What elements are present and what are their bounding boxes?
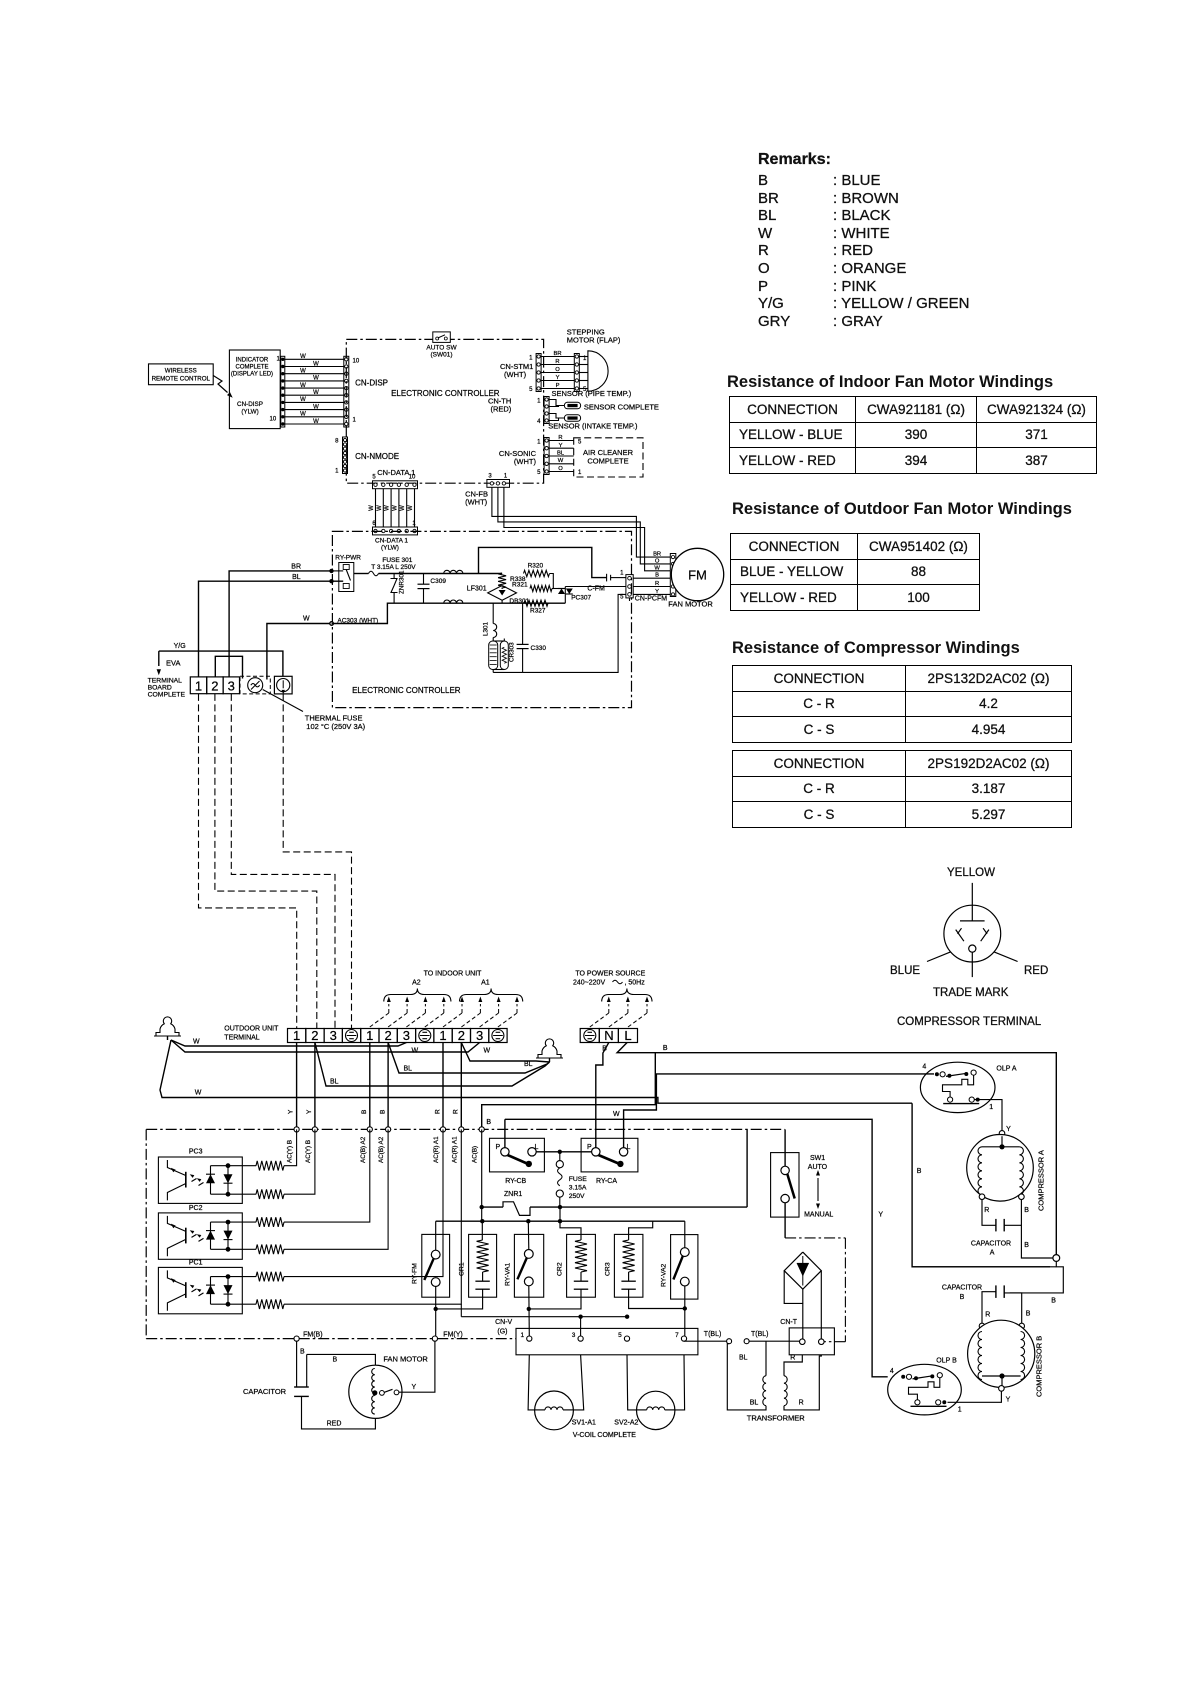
dashed drop from indoor earth (283, 694, 351, 1029)
svg-text:O: O (558, 466, 563, 472)
svg-text:10: 10 (353, 359, 360, 365)
svg-text:1: 1 (504, 474, 508, 480)
svg-text:AC(Y) B: AC(Y) B (287, 1140, 294, 1163)
svg-text:Y: Y (878, 1212, 883, 1219)
svg-text:BL: BL (557, 451, 565, 457)
compressor A (999, 1131, 1005, 1137)
svg-text:CN-DISP: CN-DISP (355, 379, 388, 388)
svg-text:R321: R321 (512, 582, 528, 589)
svg-text:10: 10 (270, 417, 277, 423)
svg-text:2: 2 (384, 1028, 391, 1043)
svg-text:PC3: PC3 (189, 1149, 203, 1156)
svg-text:FM: FM (688, 568, 707, 583)
svg-text:CR3: CR3 (605, 1262, 612, 1276)
svg-text:Y: Y (412, 1384, 417, 1391)
outdoor terminal strip (288, 1029, 306, 1043)
capacitor A (982, 1200, 996, 1226)
svg-text:B: B (1051, 1297, 1056, 1304)
long W wire from mushroom (160, 1040, 656, 1098)
svg-text:T(BL): T(BL) (704, 1331, 722, 1338)
SW1 to CN-T dash-dot (784, 1203, 786, 1238)
svg-text:RY-VA1: RY-VA1 (505, 1262, 512, 1286)
svg-text:BR: BR (653, 552, 661, 558)
svg-text:B: B (333, 1357, 338, 1364)
indoor terminal board 1 2 3 (190, 677, 206, 694)
drop R wire terminal 1c (442, 1043, 444, 1130)
compressor terminal trademark symbol (927, 883, 1018, 977)
BL wire terminal 2a to right mushroom (315, 1043, 550, 1087)
relay RY-VA1 (514, 1234, 543, 1297)
earth screw box (274, 676, 292, 694)
svg-text:L: L (624, 1028, 631, 1043)
svg-text:R: R (790, 1355, 795, 1362)
svg-text:1: 1 (529, 356, 533, 362)
svg-text:B: B (663, 1045, 668, 1052)
choke L301 (492, 603, 494, 623)
connector CN-NMODE (343, 437, 348, 474)
svg-text:1: 1 (958, 1407, 962, 1414)
svg-text:102 °C (250V 3A): 102 °C (250V 3A) (306, 722, 365, 731)
T(BL) wire with inline connectors (684, 1340, 727, 1342)
svg-text:B: B (1026, 1311, 1031, 1318)
signal arrow from remote (213, 376, 227, 393)
wireless remote control box (149, 364, 214, 385)
svg-text:CAPACITOR: CAPACITOR (971, 1240, 1011, 1247)
svg-text:W: W (369, 505, 375, 511)
capacitor B (995, 1285, 997, 1298)
svg-text:PC307: PC307 (571, 595, 591, 602)
rail B (436, 1220, 685, 1222)
svg-text:AC(B): AC(B) (472, 1146, 479, 1163)
svg-text:3: 3 (330, 1028, 337, 1043)
svg-text:INDICATOR: INDICATOR (236, 358, 269, 364)
OLP A heater element (943, 1075, 974, 1097)
svg-text:3: 3 (403, 1028, 410, 1043)
svg-text:AC(Y) B: AC(Y) B (305, 1140, 312, 1163)
svg-text:A2: A2 (412, 980, 421, 987)
thermal fuse dashed box (240, 676, 270, 694)
svg-text:R: R (453, 1109, 460, 1114)
svg-text:5: 5 (529, 387, 533, 393)
svg-text:ZNR301: ZNR301 (399, 570, 406, 594)
svg-text:1: 1 (537, 440, 541, 446)
svg-text:FUSE: FUSE (569, 1176, 588, 1183)
junction circle right side (1053, 1255, 1060, 1262)
outdoor controller dash-dot border bottom (146, 1338, 294, 1340)
V-coil SV1-A1 (528, 1355, 535, 1410)
svg-text:Y: Y (655, 589, 659, 595)
svg-text:5: 5 (618, 1332, 622, 1339)
svg-text:(WHT): (WHT) (465, 498, 488, 507)
svg-text:R: R (984, 1207, 989, 1214)
svg-text:Y: Y (559, 443, 563, 449)
svg-text:L301: L301 (483, 621, 490, 636)
svg-text:RED: RED (327, 1421, 342, 1428)
resistor R327 (524, 600, 548, 606)
svg-text:4: 4 (890, 1368, 894, 1375)
relay coil CR1 (469, 1234, 497, 1297)
svg-text:W: W (313, 376, 319, 382)
svg-text:BR: BR (291, 564, 301, 571)
svg-text:CR303: CR303 (509, 642, 516, 662)
diode bridge (outdoor) (784, 1252, 821, 1289)
electronic controller dash-dot box (indoor) (346, 339, 543, 483)
svg-text:RY-FM: RY-FM (412, 1263, 419, 1284)
connector CN-STM1 (WHT) (536, 354, 541, 392)
svg-text:Y: Y (306, 1109, 313, 1114)
svg-text:2: 2 (311, 1028, 318, 1043)
indicator complete (display LED) box (229, 350, 280, 429)
svg-text:SENSOR (PIPE TEMP.): SENSOR (PIPE TEMP.) (552, 389, 632, 398)
svg-text:1: 1 (293, 1028, 300, 1043)
connector CN-FB (WHT) (487, 480, 510, 488)
junction circles on border (294, 1127, 299, 1132)
svg-text:(YLW): (YLW) (241, 409, 258, 416)
svg-text:1: 1 (537, 399, 541, 405)
svg-text:C309: C309 (430, 578, 446, 585)
long W/B wire to capacitor junction (912, 1103, 1050, 1267)
svg-text:B: B (1024, 1242, 1029, 1249)
svg-text:RY-CA: RY-CA (596, 1178, 617, 1185)
svg-text:REMOTE CONTROL: REMOTE CONTROL (152, 376, 211, 383)
svg-text:ELECTRONIC CONTROLLER: ELECTRONIC CONTROLLER (352, 686, 461, 695)
svg-text:Y: Y (1006, 1126, 1011, 1133)
svg-text:(DISPLAY LED): (DISPLAY LED) (231, 372, 273, 378)
svg-text:B: B (361, 1110, 368, 1114)
wires CN-DATA1 to CN-DATA1(YLW) (375, 489, 377, 527)
svg-text:N: N (604, 1028, 613, 1043)
OLP B (888, 1364, 962, 1415)
svg-text:W: W (313, 390, 319, 396)
svg-text:1: 1 (366, 1028, 373, 1043)
varistor ZNR301 (393, 574, 395, 579)
svg-text:8: 8 (335, 439, 339, 445)
svg-text:CN-V: CN-V (495, 1319, 512, 1326)
svg-text:PC2: PC2 (189, 1205, 203, 1212)
svg-text:, 50Hz: , 50Hz (625, 980, 646, 987)
svg-text:FAN MOTOR: FAN MOTOR (668, 600, 713, 609)
svg-text:2: 2 (458, 1028, 465, 1043)
svg-text:240~220V: 240~220V (573, 980, 605, 987)
extra link PC1 lower to CN-V pin3 (460, 1303, 462, 1305)
wire PC307 to CN-PCFM pin2 (565, 586, 626, 588)
svg-text:TERMINAL: TERMINAL (224, 1035, 259, 1042)
svg-text:TRANSFORMER: TRANSFORMER (747, 1414, 806, 1423)
svg-text:W: W (385, 505, 391, 511)
svg-text:COMPLETE: COMPLETE (148, 692, 186, 699)
fan motor FM (670, 554, 676, 597)
relay RY-CB (490, 1138, 545, 1172)
svg-text:OLP A: OLP A (996, 1066, 1016, 1073)
connector CN-PCFM (626, 575, 633, 598)
svg-text:A: A (990, 1249, 995, 1256)
svg-text:COMPRESSOR A: COMPRESSOR A (1037, 1150, 1046, 1211)
svg-text:ELECTRONIC CONTROLLER: ELECTRONIC CONTROLLER (391, 389, 500, 398)
svg-text:O: O (655, 558, 660, 564)
svg-text:Y: Y (1006, 1397, 1011, 1404)
RY-CB P riser (504, 1119, 506, 1147)
svg-text:FAN MOTOR: FAN MOTOR (383, 1355, 428, 1364)
svg-text:T 3.15A L 250V: T 3.15A L 250V (371, 564, 416, 571)
diode bridge DB301 (488, 586, 517, 601)
svg-text:AC(R) A1: AC(R) A1 (433, 1136, 440, 1163)
svg-text:CN-T: CN-T (780, 1319, 797, 1326)
wire compressor B to OLP B (948, 1391, 1002, 1402)
svg-text:3: 3 (476, 1028, 483, 1043)
svg-text:R: R (655, 581, 659, 587)
svg-text:R: R (434, 1109, 441, 1114)
svg-text:7: 7 (675, 1332, 679, 1339)
BL wire terminal 2c to right mushroom (461, 1043, 549, 1063)
svg-text:Y: Y (288, 1109, 295, 1114)
svg-text:LF301: LF301 (467, 586, 487, 593)
svg-text:W: W (377, 505, 383, 511)
svg-text:CN-NMODE: CN-NMODE (355, 452, 399, 461)
wires CN-PCFM to motor pins (633, 577, 670, 579)
svg-text:BL: BL (524, 1061, 533, 1068)
W wire terminal 3c to mushroom (171, 1040, 480, 1052)
svg-text:RY-PWR: RY-PWR (335, 555, 361, 562)
surge absorber SSB301 (492, 638, 494, 642)
svg-text:A1: A1 (481, 980, 490, 987)
connector CN-SONIC (WHT) (544, 438, 549, 475)
svg-text:3.15A: 3.15A (569, 1185, 587, 1192)
svg-text:R: R (558, 435, 562, 441)
sensor complete thermistors (564, 402, 580, 409)
relay coil CR2 (567, 1234, 596, 1297)
svg-text:W: W (193, 1039, 200, 1046)
earth mushroom left (154, 1017, 181, 1036)
svg-text:TERMINAL: TERMINAL (148, 678, 183, 685)
V-coil SV2-A2 (627, 1355, 637, 1410)
svg-text:W: W (300, 412, 306, 418)
drop Y wire terminal 2a (314, 1043, 316, 1130)
svg-text:(YLW): (YLW) (381, 545, 399, 552)
wire from N terminal to RY-CA P (596, 1043, 609, 1148)
wire BL to terminal 1 (199, 581, 344, 677)
svg-text:10: 10 (409, 475, 416, 481)
svg-text:AUTO: AUTO (808, 1164, 828, 1171)
resistor CR303 (500, 641, 508, 670)
svg-text:T(BL): T(BL) (751, 1331, 769, 1338)
capacitor C330 (522, 603, 524, 644)
svg-text:(RED): (RED) (490, 405, 511, 414)
svg-text:CAPACITOR: CAPACITOR (942, 1285, 982, 1292)
wire B junction link (482, 1053, 656, 1130)
svg-text:CR2: CR2 (557, 1262, 564, 1276)
line filter LF301 (444, 570, 463, 573)
top loop wire to C-FM (479, 547, 607, 577)
svg-text:B: B (960, 1294, 965, 1301)
svg-text:W: W (300, 397, 306, 403)
svg-text:W: W (558, 458, 564, 464)
svg-text:B: B (1024, 1207, 1029, 1214)
svg-text:BOARD: BOARD (148, 685, 172, 692)
switch SW1 (784, 1129, 786, 1166)
svg-text:AUTO SW: AUTO SW (426, 345, 457, 352)
svg-text:1: 1 (578, 470, 582, 476)
svg-text:W: W (484, 1048, 491, 1055)
svg-text:CN-PCFM: CN-PCFM (635, 596, 667, 603)
svg-text:(G): (G) (497, 1329, 507, 1336)
svg-text:P: P (496, 1144, 501, 1151)
connector CN-DATA 1 (YLW) (373, 527, 418, 535)
svg-text:R: R (799, 1400, 804, 1407)
svg-text:SV1-A1: SV1-A1 (572, 1420, 596, 1427)
svg-text:R: R (555, 359, 559, 365)
svg-text:5: 5 (620, 595, 624, 601)
capacitor C309 (423, 574, 425, 585)
svg-text:C330: C330 (531, 645, 547, 652)
svg-text:B: B (917, 1168, 922, 1175)
opto PC307 diodes (564, 587, 566, 604)
svg-text:1: 1 (335, 469, 339, 475)
svg-text:W: W (408, 505, 414, 511)
relay RY-FM (422, 1234, 450, 1297)
svg-text:R320: R320 (528, 563, 544, 570)
transformer (765, 1341, 767, 1376)
svg-text:4: 4 (537, 419, 541, 425)
svg-text:EVA: EVA (166, 659, 180, 668)
svg-text:BL: BL (750, 1400, 759, 1407)
wire W / AC303 to thermal fuse (267, 624, 332, 680)
svg-text:1: 1 (520, 1332, 524, 1339)
svg-text:5: 5 (372, 475, 376, 481)
svg-text:RY-VA2: RY-VA2 (661, 1263, 668, 1287)
svg-text:3: 3 (572, 1332, 576, 1339)
svg-text:BR: BR (553, 351, 561, 357)
svg-text:W: W (300, 383, 306, 389)
wire terminal2 to thermal fuse (215, 656, 242, 678)
FM(Y) junction (432, 1336, 437, 1341)
svg-text:W: W (313, 361, 319, 367)
svg-text:BL: BL (404, 1066, 413, 1073)
air cleaner complete dashed box (574, 438, 643, 477)
svg-text:SV2-A2: SV2-A2 (614, 1420, 638, 1427)
dashed drop from indoor terminal 2 (215, 694, 317, 1029)
svg-text:(WHT): (WHT) (504, 370, 527, 379)
svg-text:250V: 250V (569, 1193, 585, 1200)
svg-text:W: W (412, 1048, 419, 1055)
drop R wire terminal 2c (460, 1043, 462, 1130)
W wire terminal 3b to mushroom (171, 1040, 406, 1046)
svg-text:W: W (300, 369, 306, 375)
thermal fuse label leader (263, 690, 303, 712)
svg-text:(WHT): (WHT) (514, 457, 537, 466)
svg-text:SENSOR COMPLETE: SENSOR COMPLETE (584, 403, 659, 412)
wire B from L terminal (right side feed) (617, 1043, 1056, 1255)
OLP A pin4 wire from RY-CA L (624, 1074, 934, 1148)
svg-text:FM(Y): FM(Y) (443, 1332, 462, 1339)
svg-text:RY-CB: RY-CB (505, 1178, 526, 1185)
drop Y wire terminal 1a (296, 1043, 298, 1130)
svg-text:1: 1 (412, 521, 416, 527)
rail A (482, 1206, 503, 1208)
svg-text:W: W (400, 505, 406, 511)
svg-text:1: 1 (989, 1104, 993, 1111)
svg-text:OLP B: OLP B (936, 1357, 957, 1364)
compressor B (979, 1323, 985, 1329)
svg-text:COMPLETE: COMPLETE (235, 365, 268, 371)
earth mushroom right (536, 1039, 563, 1058)
svg-text:W: W (654, 565, 660, 571)
Y wire to OLP B (505, 1119, 888, 1377)
svg-text:5: 5 (537, 470, 541, 476)
svg-text:AC(B) A2: AC(B) A2 (360, 1136, 367, 1163)
dashed drop from indoor terminal 3 (231, 694, 335, 1029)
bridge wires to CN-T (784, 1271, 803, 1339)
svg-text:COMPRESSOR B: COMPRESSOR B (1035, 1336, 1044, 1397)
svg-text:CAPACITOR: CAPACITOR (243, 1387, 287, 1396)
wire Y/G to earth screw box (159, 651, 283, 676)
svg-text:W: W (303, 616, 310, 623)
drop B wire terminal 2b (387, 1043, 389, 1130)
svg-text:W: W (195, 1090, 202, 1097)
svg-text:WIRELESS: WIRELESS (165, 368, 197, 375)
svg-text:SENSOR (INTAKE TEMP.): SENSOR (INTAKE TEMP.) (548, 422, 638, 431)
wire RY-CB L to RY-CA P with fuse tap (536, 1151, 591, 1153)
svg-text:3: 3 (228, 679, 235, 694)
svg-text:AC(R) A1: AC(R) A1 (451, 1136, 458, 1163)
svg-text:1: 1 (195, 679, 202, 694)
svg-text:AC(B) A2: AC(B) A2 (378, 1136, 385, 1163)
relay coil CR3 (614, 1234, 643, 1297)
svg-text:FM(B): FM(B) (303, 1332, 322, 1339)
svg-text:Y: Y (556, 375, 560, 381)
svg-text:CR1: CR1 (459, 1262, 466, 1276)
svg-text:B: B (655, 573, 659, 579)
svg-text:(SW01): (SW01) (430, 352, 452, 359)
svg-text:W: W (313, 404, 319, 410)
svg-text:B: B (379, 1110, 386, 1114)
svg-text:TO POWER SOURCE: TO POWER SOURCE (575, 971, 645, 978)
svg-text:1: 1 (620, 571, 624, 577)
svg-text:B: B (300, 1349, 305, 1356)
svg-text:B: B (486, 1119, 491, 1126)
dashed drop from indoor terminal 1 (199, 694, 297, 1029)
svg-text:O: O (555, 367, 560, 373)
svg-text:1: 1 (353, 418, 357, 424)
svg-text:FUSE 301: FUSE 301 (382, 557, 412, 564)
svg-text:W: W (313, 419, 319, 425)
svg-text:SW1: SW1 (810, 1155, 825, 1162)
svg-text:COMPLETE: COMPLETE (587, 457, 628, 466)
OLP A (920, 1062, 995, 1112)
OLP B heater element (909, 1378, 940, 1400)
dashed arrows to power source (590, 1013, 609, 1027)
drop B wire terminal 1b (369, 1043, 371, 1130)
resistor R338 (498, 573, 506, 588)
svg-text:1: 1 (439, 1028, 446, 1043)
connector CN-DISP pin columns and wires (281, 358, 284, 361)
AUTO SW (SW01) (433, 332, 451, 343)
svg-text:ZNR1: ZNR1 (504, 1191, 522, 1198)
svg-text:V-COIL COMPLETE: V-COIL COMPLETE (573, 1432, 636, 1439)
wires CN-FB to fan motor FM (492, 487, 670, 557)
svg-text:4: 4 (922, 1063, 926, 1070)
svg-text:P: P (587, 1144, 592, 1151)
svg-text:PC1: PC1 (189, 1260, 203, 1267)
svg-text:TO INDOOR UNIT: TO INDOOR UNIT (424, 971, 483, 978)
svg-text:MANUAL: MANUAL (804, 1212, 833, 1219)
svg-text:2: 2 (211, 679, 218, 694)
svg-text:BL: BL (292, 574, 301, 581)
outdoor controller dash-dot border left (145, 1129, 147, 1338)
svg-text:R: R (985, 1312, 990, 1319)
wire CN-PCFM pin5 down-left (629, 598, 631, 601)
svg-text:Y/G: Y/G (174, 643, 186, 650)
EVA arrow (158, 651, 160, 666)
